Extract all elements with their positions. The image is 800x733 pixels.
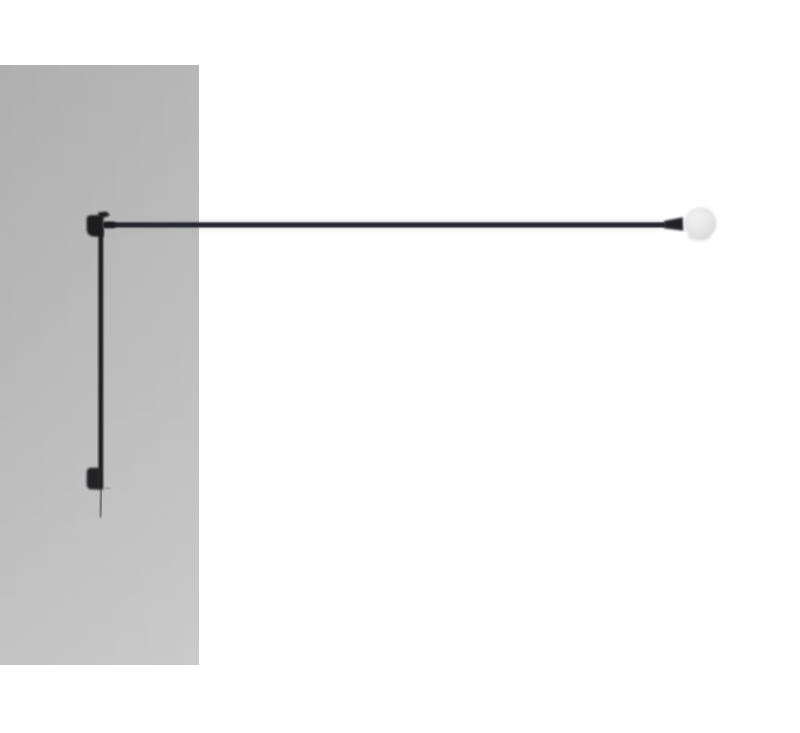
gray wall panel — [0, 65, 199, 665]
vertical rod — [99, 228, 104, 490]
upper wall bracket top tab — [98, 212, 110, 218]
arm hub (thick rod segment at pivot) — [103, 222, 116, 228]
horizontal arm rod — [122, 220, 662, 231]
opal globe bulb — [684, 207, 716, 239]
horizontal arm rod core — [104, 222, 665, 227]
hanging cable below lower bracket — [100, 489, 101, 517]
lower bracket set screw — [104, 488, 111, 490]
bulb under-shadow — [688, 232, 711, 241]
upper wall bracket body — [87, 215, 104, 236]
lamp socket cone — [664, 217, 683, 231]
lower wall bracket body — [87, 468, 100, 490]
